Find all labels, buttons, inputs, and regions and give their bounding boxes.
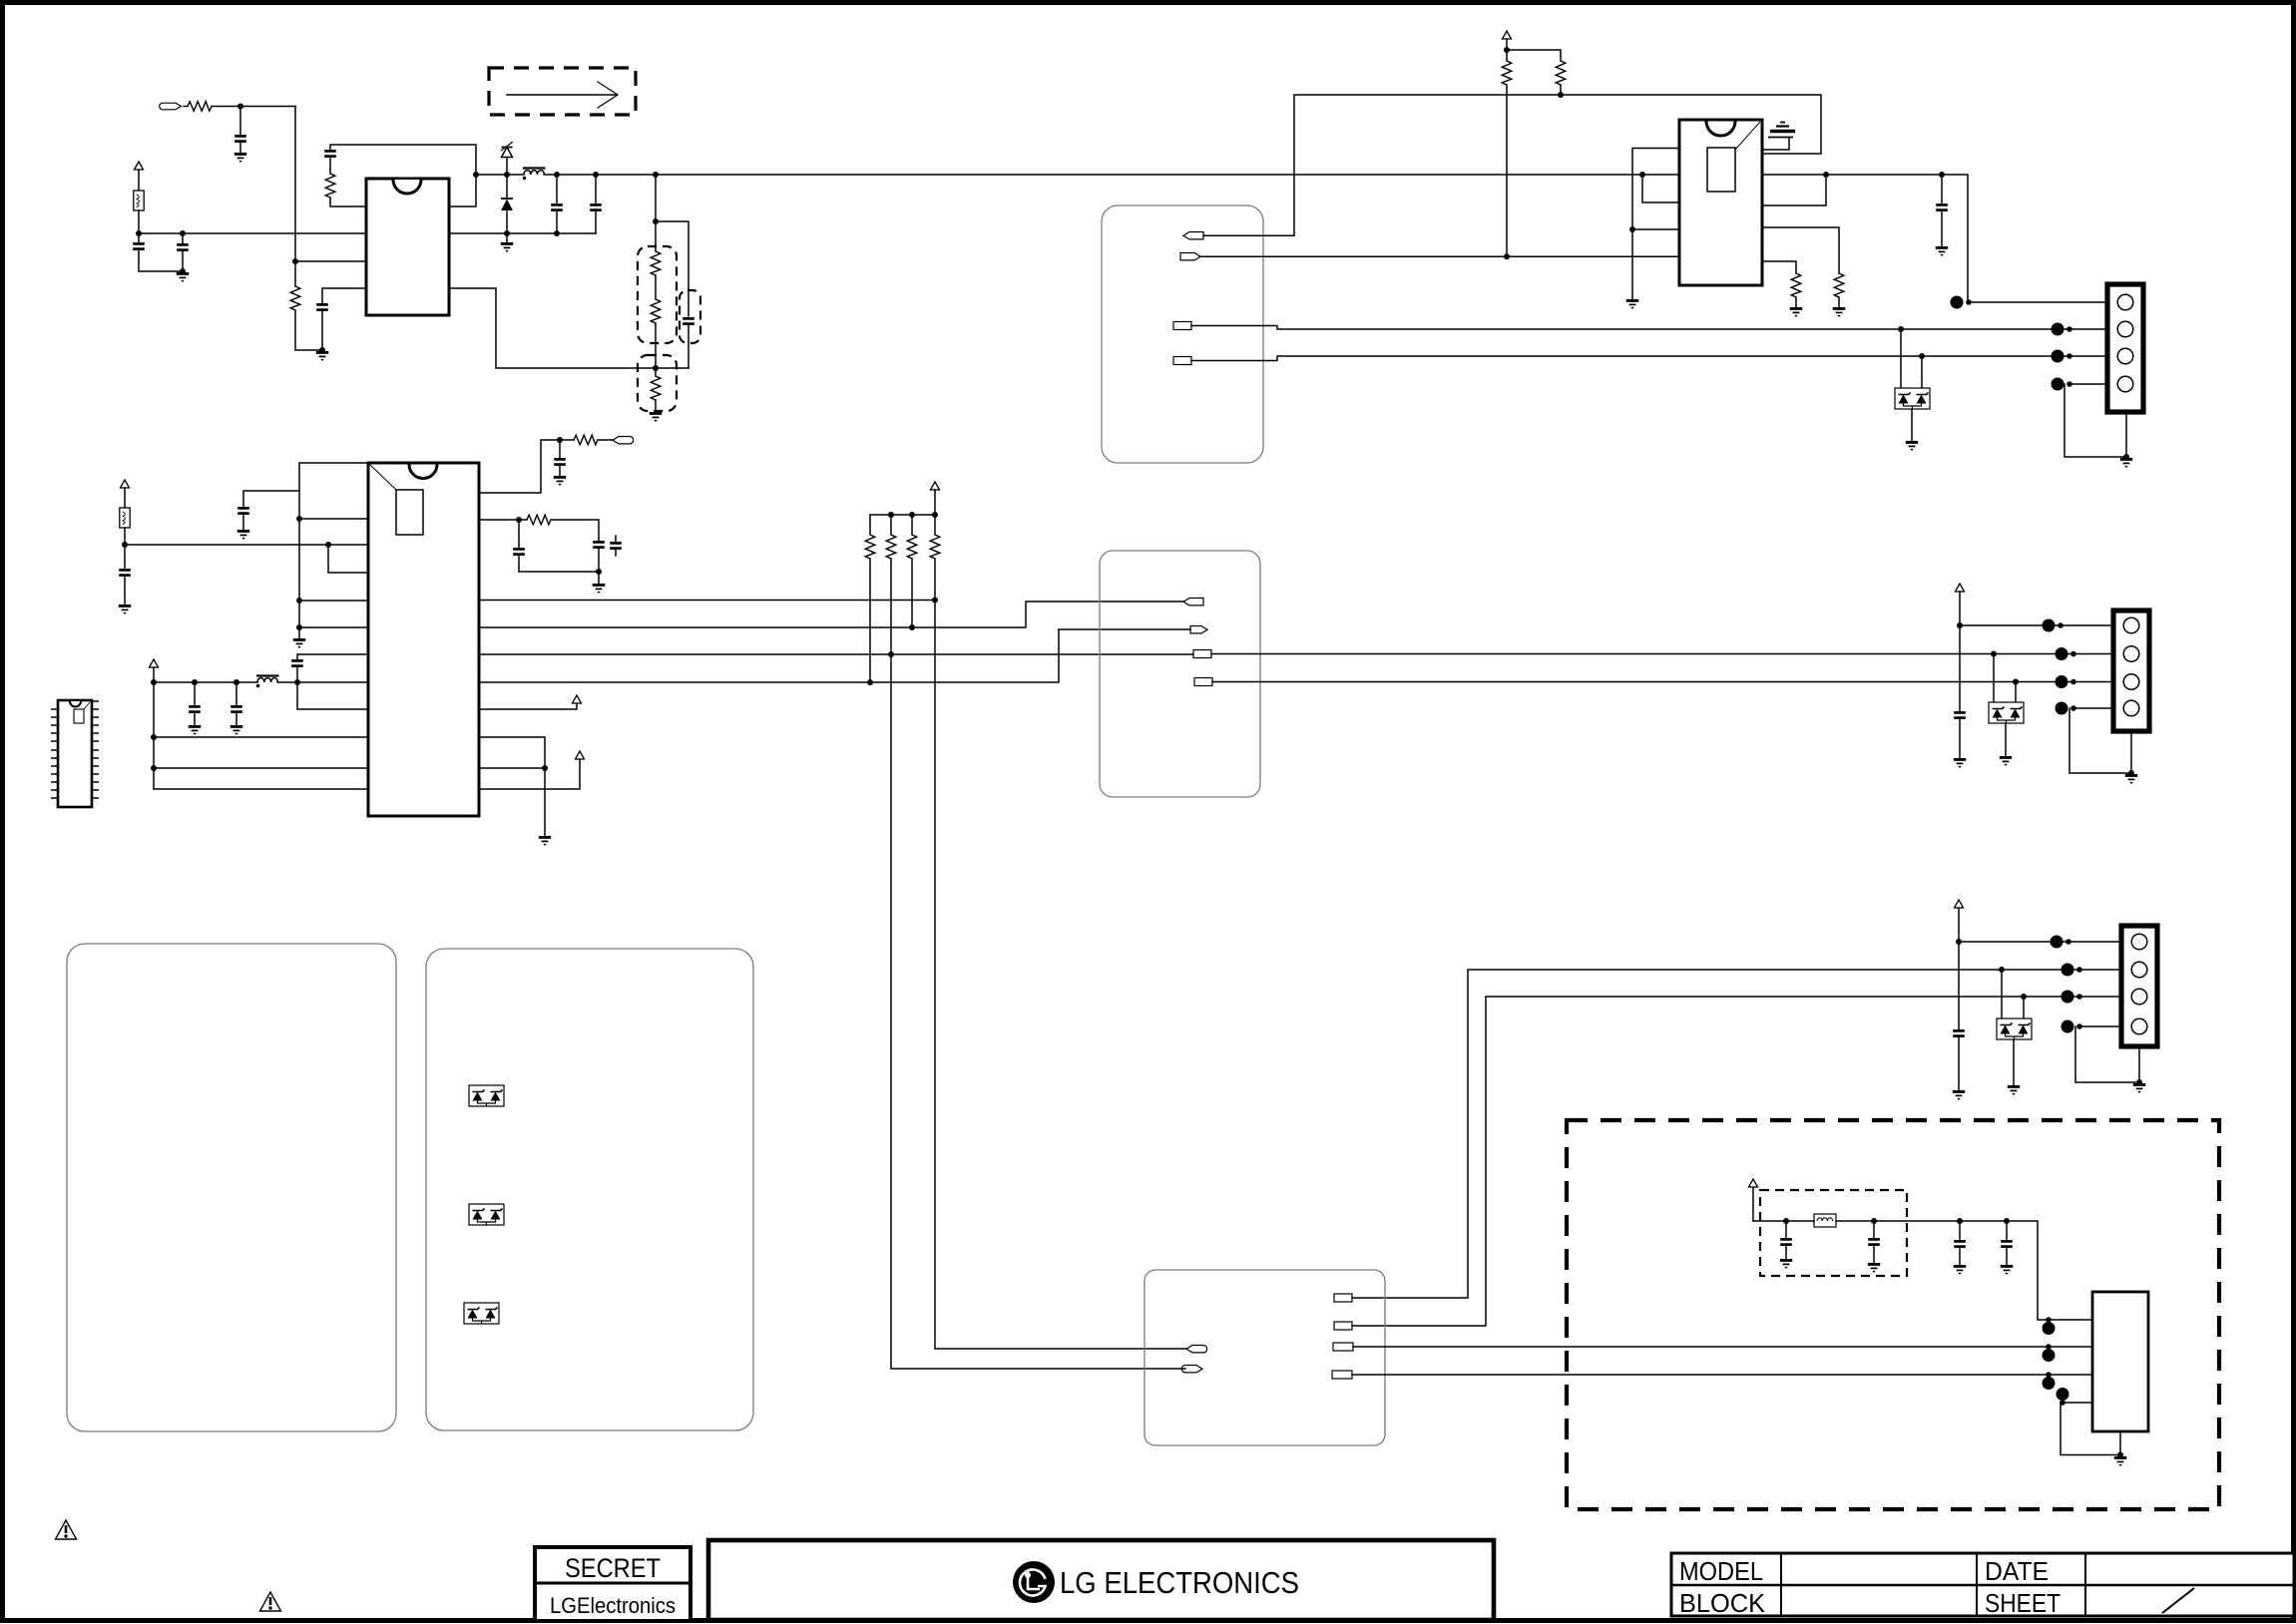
LG logo <box>1013 1561 1055 1603</box>
wire rail 175 <box>476 169 1679 181</box>
ground <box>2125 775 2137 782</box>
capacitor C14 (option) <box>610 536 622 556</box>
wire resistor bank bus <box>870 514 935 516</box>
zener pack ZP1 <box>1895 329 1930 441</box>
ground <box>1906 442 1918 449</box>
capacitor C6 <box>590 175 602 233</box>
big dashed panel box <box>1567 1120 2219 1509</box>
connector CN2 <box>2113 610 2149 731</box>
wire module stem <box>2119 1431 2121 1455</box>
node dot <box>136 230 142 236</box>
wire CN2 shell stem <box>2130 731 2132 773</box>
node dot <box>516 517 522 523</box>
ground <box>234 154 246 161</box>
node dot <box>1919 353 1925 359</box>
resistor R11 <box>527 515 599 541</box>
node dot <box>909 624 915 630</box>
capacitor C16 <box>230 682 242 725</box>
feedback loop wire U1 <box>324 145 476 206</box>
ground <box>539 837 551 844</box>
node dot <box>1956 939 1962 945</box>
sheet slash <box>2162 1588 2194 1613</box>
off-page bullet pin4 <box>2052 378 2072 391</box>
wire P17 to module <box>1352 1374 2092 1376</box>
node dot <box>932 598 938 604</box>
ground <box>119 606 131 612</box>
IC U4 dip <box>51 700 99 807</box>
connector pad P10 <box>1193 650 1211 658</box>
node dot <box>296 624 302 630</box>
MODEL label <box>1679 1556 1763 1586</box>
node dot <box>2004 1218 2010 1224</box>
capacitor C23 <box>2001 1221 2013 1265</box>
resistor R13 <box>886 515 896 654</box>
node dot <box>888 651 894 657</box>
connector pad P14 <box>1334 1294 1352 1302</box>
IC U3 main <box>368 463 479 816</box>
wire loop row206 <box>1762 175 1826 205</box>
wire U3 row739 loop <box>479 737 545 836</box>
node dot <box>296 598 302 604</box>
connector pad P4 <box>1180 253 1200 260</box>
power arrow VCC5 <box>573 695 582 703</box>
diode D3 <box>501 175 513 233</box>
ground <box>1626 300 1638 307</box>
node dot <box>593 172 599 178</box>
wire U3 row601 <box>479 600 935 602</box>
off-page bullet <box>2062 991 2082 1004</box>
dashed option box 1 <box>638 246 677 343</box>
resistor R4 (option) <box>651 299 661 376</box>
svg-text:BLOCK: BLOCK <box>1679 1588 1766 1618</box>
node dot <box>554 172 560 178</box>
wire U3 row791 arrow <box>479 759 580 789</box>
off-page bullet pin4 <box>2056 702 2076 715</box>
MODEL table <box>1671 1553 2294 1616</box>
wire row656 <box>297 653 368 655</box>
zener pack ZP4 <box>469 1085 504 1106</box>
ferrite bead FB2 <box>120 508 130 545</box>
SECRET box <box>535 1547 690 1621</box>
ground <box>177 273 189 280</box>
node dot <box>1957 622 1963 628</box>
wire pin4 ground <box>2069 708 2131 773</box>
ground <box>1936 247 1948 254</box>
inductor L1 <box>256 676 368 688</box>
rounded group box CON-A <box>1102 205 1263 463</box>
power arrow VCC9 <box>1955 900 1964 942</box>
resistor R1 <box>184 102 212 112</box>
ground <box>2000 757 2012 764</box>
node dot <box>557 437 563 443</box>
wire arrow node <box>1507 50 1561 61</box>
node dot <box>888 512 894 518</box>
ground <box>1868 1264 1880 1271</box>
node dot <box>237 104 243 110</box>
connector pad P11 <box>1194 678 1212 686</box>
svg-text:MODEL: MODEL <box>1679 1556 1763 1586</box>
svg-text:SECRET: SECRET <box>565 1553 661 1583</box>
wire P6 to CN1 pin3 <box>1191 356 2107 361</box>
off-page bullet m4 <box>2057 1388 2069 1406</box>
connector pad P15 <box>1334 1322 1352 1330</box>
wire filter rail 2 <box>1836 1221 2092 1320</box>
capacitor C7 (option) <box>683 318 694 368</box>
resistor R7 <box>1502 50 1512 256</box>
wire P16 to module <box>1353 1346 2092 1348</box>
ground <box>316 352 328 359</box>
ground <box>1954 1266 1966 1273</box>
zener pack ZP2 <box>1989 654 2024 757</box>
wire row770 right <box>479 767 545 769</box>
capacitor C8 <box>1936 175 1948 246</box>
wire row602 <box>299 600 368 602</box>
connector pad P6 <box>1173 357 1191 365</box>
power arrow VCC6 <box>576 751 585 759</box>
node dot <box>504 230 510 236</box>
ground <box>2001 1266 2013 1273</box>
capacitor C13 <box>513 520 599 572</box>
wire U2 left loop <box>1632 149 1679 300</box>
power arrow VCC3 <box>121 480 130 508</box>
wire U3 row494 loop <box>479 440 574 493</box>
zener pack ZP6 <box>464 1303 499 1324</box>
ground <box>593 572 605 593</box>
ground <box>189 726 201 733</box>
off-page bullet <box>2043 619 2064 632</box>
power arrow VCC10 <box>1749 1179 1758 1221</box>
dashed arrow legend box <box>489 68 636 115</box>
LG ELECTRONICS text <box>1060 1565 1299 1600</box>
rounded group box CON-B <box>1100 551 1260 797</box>
ground <box>2133 1084 2145 1091</box>
IC U2 <box>1679 120 1762 285</box>
connector pad P1 <box>160 103 182 110</box>
wire row262 <box>295 260 366 262</box>
node dot <box>180 268 186 274</box>
capacitor C5 <box>551 175 563 233</box>
resistor R5 (option) <box>651 376 661 412</box>
LG banner box <box>708 1540 1494 1620</box>
wire U3 row629 to pad P9 <box>479 602 1183 627</box>
node dot <box>2013 679 2019 685</box>
wire long vertical net1 <box>935 601 1186 1350</box>
node dot <box>1939 172 1945 178</box>
node dot <box>542 765 548 771</box>
connector pad P17 <box>1332 1371 1352 1379</box>
node dot <box>2136 1079 2142 1085</box>
wire pin4 to ground <box>2065 384 2126 457</box>
rounded note box L2 <box>426 949 753 1430</box>
rounded note box L1 <box>67 944 396 1431</box>
wire U2 out row175 <box>1762 175 2107 302</box>
node dot <box>1504 47 1510 53</box>
resistor R9 <box>1762 261 1801 307</box>
node dot <box>296 516 302 522</box>
wire U3 row656 <box>479 653 1193 655</box>
wire vertical to row262 <box>294 107 296 287</box>
wire CN2 pin1 <box>1960 624 2113 626</box>
dashed option box 3 <box>638 355 677 411</box>
wire U3 row684 right (pad P8 net) <box>479 629 1190 682</box>
wire riser net3 to CN3 pin2 <box>1352 970 2121 1298</box>
SHEET label <box>1985 1588 2061 1618</box>
wire row230 <box>1632 228 1679 230</box>
wire row546 <box>125 544 368 546</box>
node dot <box>1999 967 2005 973</box>
wire to cap branch <box>656 221 689 316</box>
ground <box>230 726 242 733</box>
inverted ground U2 <box>1762 123 1795 151</box>
power arrow VCC1 <box>135 162 144 191</box>
warning triangle 1 <box>56 1520 77 1539</box>
wire P10 to CN2 pin2 <box>1211 653 2113 655</box>
module M1 <box>2092 1292 2148 1431</box>
node dot <box>1991 651 1997 657</box>
off-page bullet m1 <box>2043 1317 2056 1335</box>
DATE label <box>1985 1556 2049 1586</box>
node dot <box>1783 1218 1789 1224</box>
filter bead FB3 <box>1814 1214 1836 1227</box>
wire CN1 shell stem <box>2125 412 2127 457</box>
connector pad P5 <box>1173 322 1191 330</box>
ground <box>554 477 566 484</box>
wire row684 left <box>154 681 257 683</box>
capacitor C20 <box>1780 1221 1792 1259</box>
capacitor C21 <box>1868 1221 1880 1263</box>
node dot rail branch <box>653 172 659 178</box>
ground <box>1833 308 1845 315</box>
svg-text:SHEET: SHEET <box>1985 1588 2061 1618</box>
connector CN3 <box>2121 926 2157 1046</box>
wire P5 to CN1 pin2 <box>1191 326 2107 330</box>
node dot <box>867 679 873 685</box>
wire divider branch <box>655 175 657 251</box>
capacitor C17 <box>291 654 303 682</box>
capacitor C19 <box>1953 942 1965 1090</box>
wire row520 <box>299 518 368 520</box>
node dot <box>1629 226 1635 232</box>
off-page bullet <box>2056 647 2076 660</box>
ground <box>1780 1260 1792 1267</box>
node dot <box>292 258 298 264</box>
resistor R2 <box>290 286 322 350</box>
node dot <box>325 542 331 548</box>
ground <box>2114 1457 2126 1464</box>
wire CN3 shell stem <box>2138 1046 2140 1082</box>
wire P1 node <box>212 106 295 108</box>
off-page bullet <box>2056 675 2076 688</box>
capacitor C1 <box>234 107 246 154</box>
connector pad P3 <box>1183 232 1203 239</box>
capacitor C11 <box>554 440 566 476</box>
zener pack ZP5 <box>469 1204 504 1225</box>
capacitor C9 <box>119 545 131 605</box>
resistor R14 <box>907 515 917 627</box>
wire module pin4 ground <box>2061 1403 2120 1455</box>
off-page bullet pin1 <box>1951 296 1972 309</box>
connector pad P13 <box>1181 1365 1202 1372</box>
wire U3 row711 arrow <box>479 703 577 709</box>
off-page bullet pin4 <box>2062 1020 2082 1033</box>
resistor R12 <box>865 515 875 682</box>
wire P3 to rail95 <box>1203 95 1821 235</box>
power arrow VCC2 <box>1503 31 1512 50</box>
resistor R3 (option) <box>651 251 661 299</box>
node dot <box>151 765 157 771</box>
wire jog row203 <box>1642 175 1679 203</box>
capacitor C10 <box>237 491 299 530</box>
node dot <box>909 512 915 518</box>
BLOCK label <box>1679 1588 1766 1618</box>
connector pad P8 <box>1190 626 1207 633</box>
wire row739 <box>154 736 368 738</box>
node dot <box>1558 92 1564 98</box>
svg-text:DATE: DATE <box>1985 1556 2049 1586</box>
capacitor C3 <box>133 233 183 271</box>
wire filter rail <box>1753 1220 1814 1222</box>
node dot <box>2021 994 2027 1000</box>
warning triangle 2 <box>260 1592 281 1611</box>
capacitor C18 <box>1954 625 1966 758</box>
zener D2 <box>501 142 513 175</box>
node dot <box>1871 1218 1877 1224</box>
wire row629 <box>299 626 368 628</box>
wire P11 to CN2 pin3 <box>1212 681 2113 683</box>
rounded group box CON-C <box>1145 1270 1385 1445</box>
ground <box>1954 759 1966 766</box>
off-page bullet pin2 <box>2052 323 2072 336</box>
ground <box>2008 1086 2020 1093</box>
wire jog row574 <box>328 545 368 573</box>
node dot <box>554 230 560 236</box>
svg-text:LG ELECTRONICS: LG ELECTRONICS <box>1060 1565 1299 1600</box>
wire jog row711 <box>297 682 368 709</box>
ground <box>1953 1091 1965 1098</box>
power arrow VCC7 <box>931 482 940 515</box>
capacitor C22 <box>1954 1221 1966 1265</box>
off-page bullet m3 <box>2043 1372 2056 1390</box>
svg-text:LGElectronics: LGElectronics <box>550 1593 676 1618</box>
connector pad P16 <box>1333 1343 1353 1351</box>
wire P4 row257 <box>1200 255 1679 257</box>
arrow symbol <box>507 82 618 108</box>
wire row234 right <box>449 232 596 234</box>
capacitor C2 <box>316 288 366 350</box>
power arrow VCC4 <box>150 659 159 682</box>
node dot <box>1823 172 1829 178</box>
connector pad P7 <box>613 437 634 444</box>
node dot <box>932 512 938 518</box>
node dot <box>2123 454 2129 460</box>
node dot <box>1957 1218 1963 1224</box>
IC U1 regulator <box>366 179 449 315</box>
node dot <box>294 679 300 685</box>
connector CN1 <box>2107 284 2143 412</box>
off-page bullet m2 <box>2043 1344 2056 1362</box>
wire pin4 ground <box>2075 1026 2139 1082</box>
node dot <box>319 347 325 353</box>
power arrow VCC8 <box>1956 584 1965 625</box>
capacitor C12 <box>593 542 605 572</box>
ground <box>650 413 662 420</box>
node dot <box>122 542 128 548</box>
wire U3 row521 <box>479 519 527 521</box>
inner dashed filter box <box>1760 1190 1907 1276</box>
node dot <box>151 734 157 740</box>
node dot <box>596 569 602 575</box>
wire CN3 pin1 <box>1959 941 2121 943</box>
wire U1 row289 out <box>449 288 689 368</box>
capacitor C4 <box>177 233 189 271</box>
node dot <box>653 365 659 371</box>
wire row234 <box>139 232 366 234</box>
connector pad P12 <box>1186 1345 1207 1352</box>
node dot <box>192 679 198 685</box>
resistor R15 <box>930 515 940 601</box>
dashed option box 2 <box>680 290 700 343</box>
node dot <box>1898 326 1904 332</box>
node dot <box>151 679 157 685</box>
wire ground bus U3 left <box>299 463 368 638</box>
node dot <box>2128 770 2134 776</box>
off-page bullet pin3 <box>2052 350 2072 363</box>
resistor R8 <box>1762 227 1844 307</box>
ground <box>501 233 513 251</box>
wire riser net4 to CN3 pin3 <box>1352 997 2121 1326</box>
resistor R10 <box>574 435 613 445</box>
connector pad P9 <box>1183 599 1203 606</box>
node dot <box>653 218 659 224</box>
node dot <box>180 230 186 236</box>
ground <box>2120 459 2132 466</box>
node dot <box>233 679 239 685</box>
off-page bullet <box>2051 936 2071 949</box>
capacitor C15 <box>189 682 201 725</box>
node dot <box>2117 1452 2123 1458</box>
ferrite bead FB1 <box>134 191 144 233</box>
wire long vertical net2 <box>891 654 1185 1369</box>
node A (U1 out) <box>473 172 479 178</box>
zener pack ZP3 <box>1997 970 2032 1085</box>
node dot <box>504 172 510 178</box>
resistor R6 <box>1556 61 1566 95</box>
node dot <box>1504 253 1510 259</box>
ground <box>1790 308 1802 315</box>
node dot rail into U2 <box>1639 172 1645 178</box>
wire row770 <box>154 767 368 769</box>
ground <box>237 531 249 538</box>
wire left bus rows <box>154 682 368 789</box>
off-page bullet <box>2062 964 2082 977</box>
ground <box>293 639 305 646</box>
